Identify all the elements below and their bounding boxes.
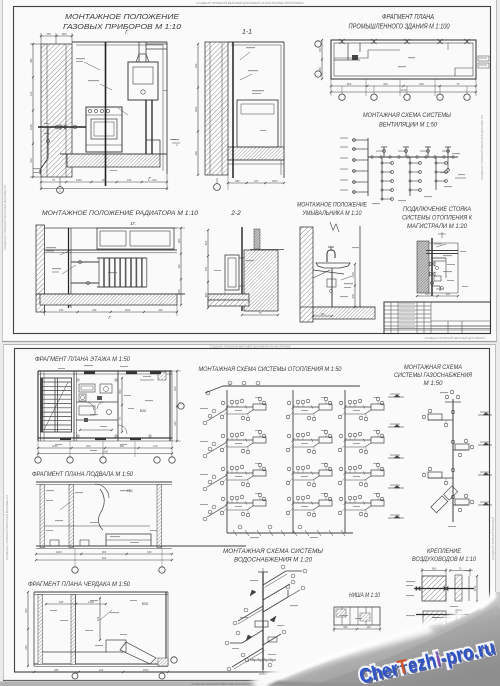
svg-text:420: 420 — [86, 444, 91, 448]
svg-text:1500: 1500 — [29, 124, 33, 130]
svg-text:МАГИСТРАЛИ М 1:20: МАГИСТРАЛИ М 1:20 — [407, 223, 468, 230]
svg-text:СОЗДАНО ПРОБНОЙ ВЕРСИЕЙ ДОКУМЕ: СОЗДАНО ПРОБНОЙ ВЕРСИЕЙ ДОКУМЕНТА — [5, 495, 9, 560]
svg-text:Г.: Г. — [148, 177, 152, 183]
svg-text:800: 800 — [432, 566, 437, 570]
svg-text:800: 800 — [204, 292, 208, 297]
svg-text:1500: 1500 — [177, 289, 181, 295]
svg-text:340: 340 — [194, 63, 198, 68]
svg-text:380: 380 — [29, 58, 33, 63]
svg-text:КРЕПЛЕНИЕ: КРЕПЛЕНИЕ — [427, 549, 462, 555]
svg-text:ФРАГМЕНТ ПЛАНА: ФРАГМЕНТ ПЛАНА — [382, 12, 434, 21]
svg-text:120: 120 — [99, 668, 104, 672]
svg-text:2-2: 2-2 — [230, 210, 241, 217]
svg-text:120: 120 — [254, 179, 259, 183]
svg-text:с.: с. — [176, 143, 179, 147]
svg-text:Г.: Г. — [125, 30, 129, 36]
svg-text:250: 250 — [173, 421, 177, 426]
svg-text:1500: 1500 — [272, 179, 278, 183]
svg-text:Г.: Г. — [108, 315, 111, 320]
svg-text:380: 380 — [177, 238, 181, 243]
svg-text:ФРАГМЕНТ ПЛАНА ЭТАЖА М 1:50: ФРАГМЕНТ ПЛАНА ЭТАЖА М 1:50 — [35, 356, 131, 363]
svg-text:800: 800 — [419, 82, 424, 86]
svg-text:1: 1 — [59, 189, 61, 193]
svg-text:СОЗДАНО ПРОБНОЙ ВЕРСИЕЙ ДОКУМЕ: СОЗДАНО ПРОБНОЙ ВЕРСИЕЙ ДОКУМЕНТА — [480, 115, 484, 180]
svg-text:МОНТАЖНОЕ ПОЛОЖЕНИЕ: МОНТАЖНОЕ ПОЛОЖЕНИЕ — [297, 202, 368, 209]
svg-text:СОЗДАНО ПРОБНОЙ ВЕРСИЕЙ ДОКУМЕ: СОЗДАНО ПРОБНОЙ ВЕРСИЕЙ ДОКУМЕНТА — [425, 336, 486, 340]
svg-text:600: 600 — [24, 608, 28, 613]
svg-text:ГВ1: ГВ1 — [127, 489, 133, 493]
svg-text:УМЫВАЛЬНИКА М 1:10: УМЫВАЛЬНИКА М 1:10 — [302, 210, 362, 217]
svg-text:120: 120 — [153, 444, 158, 448]
svg-text:510: 510 — [152, 178, 157, 182]
svg-text:800: 800 — [118, 389, 122, 394]
svg-text:СОЗДАНО ПРОБНОЙ ВЕРСИЕЙ ДОКУМЕ: СОЗДАНО ПРОБНОЙ ВЕРСИЕЙ ДОКУМЕНТА — [3, 185, 7, 250]
svg-text:МОНТАЖНОЕ ПОЛОЖЕНИЕ: МОНТАЖНОЕ ПОЛОЖЕНИЕ — [65, 12, 180, 21]
svg-text:900: 900 — [318, 47, 322, 52]
svg-text:2100: 2100 — [56, 550, 62, 554]
svg-text:1200: 1200 — [124, 308, 130, 312]
svg-text:СИСТЕМЫ ГАЗОСНАБЖЕНИЯ: СИСТЕМЫ ГАЗОСНАБЖЕНИЯ — [394, 372, 473, 379]
svg-text:НИША М 1:10: НИША М 1:10 — [349, 593, 381, 599]
svg-text:250: 250 — [383, 82, 388, 86]
svg-text:600: 600 — [347, 82, 352, 86]
svg-text:380: 380 — [54, 668, 59, 672]
svg-text:МОНТАЖНАЯ СХЕМА СИСТЕМЫ: МОНТАЖНАЯ СХЕМА СИСТЕМЫ — [223, 548, 324, 555]
svg-text:2100: 2100 — [473, 585, 477, 591]
svg-text:СОЗДАНО ПРОБНОЙ ВЕРСИЕЙ: СОЗДАНО ПРОБНОЙ ВЕРСИЕЙ — [491, 517, 495, 560]
svg-text:600: 600 — [173, 386, 177, 391]
svg-text:250: 250 — [47, 32, 52, 36]
svg-text:СИСТЕМЫ ОТОПЛЕНИЯ К: СИСТЕМЫ ОТОПЛЕНИЯ К — [402, 215, 472, 222]
svg-text:420: 420 — [158, 308, 163, 312]
svg-text:600: 600 — [29, 158, 33, 163]
svg-text:1500: 1500 — [143, 668, 149, 672]
svg-text:340: 340 — [446, 292, 451, 296]
svg-text:МОНТАЖНАЯ СХЕМА СИСТЕМЫ ОТОПЛЕ: МОНТАЖНАЯ СХЕМА СИСТЕМЫ ОТОПЛЕНИЯ М 1:50 — [199, 366, 343, 373]
svg-text:ФРАГМЕНТ ПЛАНА ПОДВАЛА М 1:50: ФРАГМЕНТ ПЛАНА ПОДВАЛА М 1:50 — [32, 471, 134, 478]
svg-text:МОНТАЖНАЯ СХЕМА: МОНТАЖНАЯ СХЕМА — [404, 364, 462, 371]
svg-text:900: 900 — [102, 550, 107, 554]
svg-text:ВОЗДУХОВОДОВ М 1:10: ВОЗДУХОВОДОВ М 1:10 — [412, 557, 477, 563]
svg-text:420: 420 — [194, 150, 198, 155]
svg-text:510: 510 — [425, 292, 430, 296]
svg-text:СОЗДАНО ПРОБНОЙ ВЕРСИЕЙ ДОКУМЕ: СОЗДАНО ПРОБНОЙ ВЕРСИЕЙ ДОКУМЕНТА В НАСТ… — [196, 1, 304, 5]
svg-text:ПРОМЫШЛЕННОГО ЗДАНИЯ М 1:100: ПРОМЫШЛЕННОГО ЗДАНИЯ М 1:100 — [349, 22, 450, 31]
svg-text:510: 510 — [102, 556, 107, 560]
svg-text:ВЕНТИЛЯЦИИ М 1:50: ВЕНТИЛЯЦИИ М 1:50 — [379, 122, 437, 129]
svg-text:МОНТАЖНАЯ СХЕМА СИСТЕМЫ: МОНТАЖНАЯ СХЕМА СИСТЕМЫ — [363, 112, 451, 119]
svg-text:900: 900 — [102, 178, 107, 182]
svg-text:160: 160 — [127, 178, 132, 182]
svg-text:160: 160 — [320, 312, 325, 316]
svg-text:СОЗДАНО ПРОБНОЙ ВЕРСИЕЙ ДОКУМЕ: СОЗДАНО ПРОБНОЙ ВЕРСИЕЙ ДОКУМЕНТА В НАСТ… — [209, 345, 290, 349]
svg-text:160: 160 — [366, 625, 371, 629]
svg-text:М 1:50: М 1:50 — [424, 380, 443, 387]
svg-text:250: 250 — [24, 645, 28, 650]
svg-text:900: 900 — [343, 625, 348, 629]
svg-text:420: 420 — [96, 616, 100, 621]
svg-text:ПОДКЛЮЧЕНИЕ СТОЯКА: ПОДКЛЮЧЕНИЕ СТОЯКА — [403, 206, 471, 213]
svg-text:120: 120 — [177, 264, 181, 269]
svg-text:ФРАГМЕНТ ПЛАНА ЧЕРДАКА М 1:50: ФРАГМЕНТ ПЛАНА ЧЕРДАКА М 1:50 — [28, 581, 131, 588]
svg-text:800: 800 — [62, 32, 67, 36]
svg-text:1200: 1200 — [88, 600, 94, 604]
svg-text:380: 380 — [235, 179, 240, 183]
svg-text:ВЗО: ВЗО — [140, 409, 147, 413]
svg-text:1-1: 1-1 — [242, 29, 252, 36]
svg-text:2100: 2100 — [401, 88, 407, 92]
svg-text:900: 900 — [351, 294, 355, 299]
svg-text:ВЗО: ВЗО — [142, 602, 149, 606]
svg-text:250: 250 — [204, 266, 208, 271]
svg-text:510: 510 — [59, 308, 64, 312]
svg-text:2100: 2100 — [351, 271, 355, 277]
svg-text:ВОДОСНАБЖЕНИЯ М 1:20: ВОДОСНАБЖЕНИЯ М 1:20 — [234, 557, 313, 564]
svg-text:2100: 2100 — [76, 178, 82, 182]
svg-text:340: 340 — [59, 600, 64, 604]
svg-text:МОНТАЖНОЕ ПОЛОЖЕНИЕ РАДИАТОРА: МОНТАЖНОЕ ПОЛОЖЕНИЕ РАДИАТОРА М 1:10 — [42, 210, 199, 217]
svg-text:120: 120 — [29, 91, 33, 96]
svg-text:1200: 1200 — [194, 106, 198, 112]
svg-text:600: 600 — [204, 240, 208, 245]
svg-text:1Г.: 1Г. — [130, 221, 136, 226]
svg-text:340: 340 — [92, 308, 97, 312]
svg-text:160: 160 — [147, 550, 152, 554]
svg-text:ГАЗОВЫХ ПРИБОРОВ М 1:10: ГАЗОВЫХ ПРИБОРОВ М 1:10 — [63, 22, 182, 31]
